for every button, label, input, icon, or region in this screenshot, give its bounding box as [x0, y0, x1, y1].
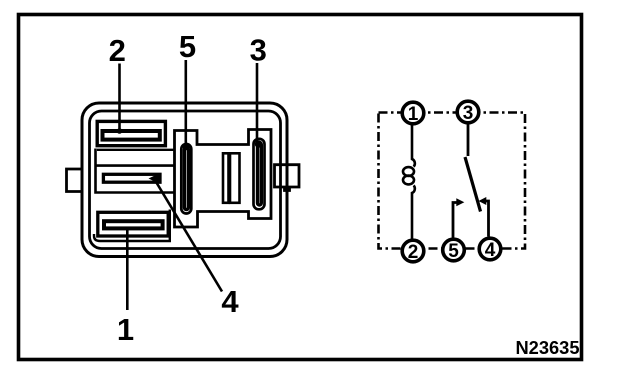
ledge line below slot 2 box — [97, 149, 174, 151]
svg-text:1: 1 — [117, 312, 134, 347]
svg-text:3: 3 — [250, 33, 267, 68]
callout line 4 — [154, 179, 222, 292]
slot 3 inner — [258, 143, 262, 206]
slot 2 contact slot — [103, 131, 160, 140]
pin 5 arm — [453, 203, 457, 238]
svg-text:3: 3 — [463, 103, 474, 124]
callout line 3 — [256, 63, 259, 144]
svg-text:4: 4 — [485, 240, 496, 261]
slot 5 inner — [184, 148, 188, 210]
left mounting tab — [67, 169, 83, 192]
svg-text:1: 1 — [408, 104, 419, 125]
right mounting tab — [275, 165, 300, 191]
slot 4 channel — [96, 149, 175, 193]
coil loops — [403, 167, 414, 176]
slot 4 callout arrowhead — [149, 174, 159, 184]
callout line 1 — [126, 227, 129, 311]
svg-text:4: 4 — [221, 284, 239, 319]
terminal circle 4 — [479, 238, 501, 260]
middle bar right — [230, 153, 240, 203]
callout line 2 — [118, 64, 121, 132]
svg-text:N23635: N23635 — [515, 337, 579, 358]
slot 5 callout dot — [183, 143, 191, 151]
pin 4 arrowhead — [479, 197, 487, 205]
svg-text:5: 5 — [179, 29, 196, 64]
svg-text:2: 2 — [408, 242, 419, 263]
coil wire bottom — [412, 186, 415, 240]
central raised block contour — [175, 130, 272, 228]
switch blade — [465, 157, 481, 212]
relay body inner outline — [90, 111, 281, 249]
slot 2 box — [97, 121, 165, 145]
recess ledge below slot 1 box — [94, 210, 170, 242]
terminal circle 1 — [402, 102, 424, 124]
slot 1 box — [98, 212, 168, 236]
middle bar left — [223, 153, 229, 203]
schematic dash-dot boundary — [379, 113, 526, 249]
callout line 2 end dot — [117, 128, 123, 134]
slot 1 contact slot — [104, 221, 163, 228]
slot 3 outer — [254, 139, 265, 210]
coil wire top — [412, 124, 415, 167]
switch wire from 3 — [467, 124, 470, 156]
callout line 5 — [185, 60, 188, 146]
pin 4 arm — [486, 201, 489, 237]
relay body outer outline — [82, 103, 287, 257]
terminal circle 5 — [443, 239, 465, 261]
slot 4 — [103, 174, 160, 182]
svg-text:2: 2 — [109, 33, 126, 68]
pin 5 arrowhead — [456, 198, 464, 206]
terminal circle 3 — [457, 101, 479, 123]
slot 3 callout dot — [255, 140, 263, 148]
slot 5 outer — [181, 144, 191, 214]
svg-text:5: 5 — [448, 241, 459, 262]
terminal circle 2 — [402, 240, 424, 262]
